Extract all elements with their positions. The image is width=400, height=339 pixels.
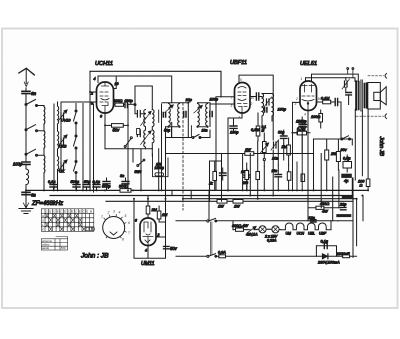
capacitor 100p on down-lead <box>22 162 30 169</box>
wire vertical x93.5 <box>93 104 95 192</box>
resistor 0.7M <box>292 131 310 135</box>
svg-text:42V,1A: 42V,1A <box>246 233 258 237</box>
wire secondary rails <box>57 102 59 190</box>
svg-text:C: C <box>53 209 55 213</box>
trimmer capacitor osc1 <box>137 111 151 126</box>
capacitor 0,1u bus left <box>50 185 57 191</box>
switch osc <box>124 137 132 148</box>
tap arrow dropper <box>247 227 257 234</box>
padder capacitor 1300 <box>155 173 164 176</box>
svg-text:2: 2 <box>157 233 160 237</box>
capacitor 22p left <box>311 220 317 222</box>
svg-text:A: A <box>42 214 44 218</box>
lamp 2 <box>269 226 281 233</box>
svg-text:UK: UK <box>59 170 65 174</box>
tube UM11 internals <box>143 222 153 246</box>
svg-text:0,3M: 0,3M <box>251 128 260 132</box>
node dots left <box>25 91 91 191</box>
resistor 100R cathode UEL <box>319 110 323 128</box>
tube UCH11 envelope <box>97 82 114 113</box>
svg-text:7: 7 <box>128 231 130 235</box>
detector trimmer <box>271 140 279 150</box>
volume potentiometer <box>260 133 269 158</box>
svg-text:5: 5 <box>125 214 127 218</box>
svg-text:1M: 1M <box>162 213 168 217</box>
svg-text:100Ω: 100Ω <box>114 99 123 103</box>
resistor 1M UM <box>157 206 165 222</box>
svg-text:2M: 2M <box>151 208 158 212</box>
IF1 capacitor d <box>210 112 212 117</box>
svg-text:C: C <box>68 209 70 213</box>
svg-text:UBF: UBF <box>319 231 327 235</box>
capacitor tone <box>346 93 352 105</box>
svg-text:100p: 100p <box>13 162 23 167</box>
svg-text:4: 4 <box>94 77 96 81</box>
diode load box <box>210 161 222 201</box>
svg-text:0,8A: 0,8A <box>218 251 226 255</box>
svg-text:UV10: UV10 <box>61 119 71 123</box>
svg-text:0,22A: 0,22A <box>267 238 277 242</box>
tube UCH11 internals <box>100 82 109 113</box>
oscillator coil L8b <box>152 130 154 149</box>
svg-text:100p: 100p <box>125 99 133 103</box>
small info table <box>41 237 67 251</box>
capacitor 100p top right <box>299 117 306 131</box>
svg-text:0,1µ: 0,1µ <box>48 180 56 184</box>
padder capacitor 500p <box>103 178 110 190</box>
svg-text:10p: 10p <box>186 98 192 102</box>
node dots x128 <box>104 124 129 126</box>
resistor 2M det <box>287 138 291 165</box>
IF1 transformer coil a <box>169 104 171 127</box>
svg-text:3: 3 <box>113 210 115 214</box>
tube UCH11 pin leads <box>83 92 97 102</box>
svg-text:6: 6 <box>135 219 137 223</box>
tube UBF11 envelope <box>235 83 251 114</box>
svg-text:E: E <box>86 209 88 213</box>
wire IF2 ends <box>262 94 272 126</box>
wire inner screen bus H2 <box>98 76 172 103</box>
svg-text:5W6: 5W6 <box>135 170 142 174</box>
trimmer capacitor band3 <box>58 160 67 171</box>
capacitor pair bottom det <box>275 165 282 190</box>
svg-text:1: 1 <box>101 215 103 219</box>
trimmer capacitor UV10 <box>58 110 67 121</box>
resistor after diode <box>337 255 357 258</box>
socket pin numbers <box>101 210 130 242</box>
IF1 capacitor a <box>163 113 165 118</box>
svg-text:22p: 22p <box>339 203 346 207</box>
wire grid line <box>61 101 83 103</box>
node dots extra <box>53 189 370 202</box>
svg-text:100p: 100p <box>210 98 218 102</box>
electrolytic 4u <box>342 174 352 177</box>
wire vertical x54 <box>53 104 55 190</box>
inductor RF choke on down-lead <box>26 169 29 200</box>
main bus B1 <box>26 189 368 191</box>
socket diagram circle <box>103 215 127 239</box>
svg-text:3n: 3n <box>120 174 124 178</box>
resistor 2W6 osc <box>137 129 140 135</box>
svg-text:3: 3 <box>231 104 233 108</box>
wire UEL51 grid left <box>293 101 301 103</box>
svg-text:300Ω,4W: 300Ω,4W <box>232 224 248 228</box>
svg-text:UEL: UEL <box>308 231 315 235</box>
resistor 300R 4W dropper <box>233 228 247 231</box>
IF2 trimmer <box>264 97 272 107</box>
svg-text:1W: 1W <box>234 205 240 209</box>
wire vertical x128 <box>127 104 129 190</box>
antenna <box>19 68 35 86</box>
IF1 capacitor b <box>184 112 186 118</box>
svg-text:B: B <box>90 209 92 213</box>
resistor v det a <box>213 162 217 190</box>
wire mains riser x209 <box>208 190 210 219</box>
main bus B4 <box>106 200 353 202</box>
wire IF1 inner vertical <box>187 103 189 138</box>
svg-text:UK8: UK8 <box>59 145 67 149</box>
svg-text:Ω: Ω <box>360 184 363 188</box>
svg-text:100: 100 <box>243 181 249 185</box>
node dots IF1 <box>167 102 208 128</box>
wire osc inner <box>158 110 160 122</box>
svg-text:1W: 1W <box>218 205 224 209</box>
svg-text:500: 500 <box>61 246 66 250</box>
wire IF1 bottoms <box>166 125 208 128</box>
svg-text:E: E <box>49 209 51 213</box>
wire IF1 left drop <box>166 127 193 154</box>
svg-text:U: U <box>42 219 44 223</box>
wire coil returns <box>43 125 45 191</box>
svg-text:10n: 10n <box>272 169 278 173</box>
svg-text:1k: 1k <box>209 182 213 186</box>
IF1 transformer coil c <box>198 104 200 127</box>
svg-text:John : JB: John : JB <box>80 253 109 260</box>
resistor 2M UM grid <box>146 199 150 218</box>
wire vertical x90 <box>89 71 91 190</box>
svg-text:UCH11: UCH11 <box>95 61 113 67</box>
antenna coil L1 <box>43 106 46 125</box>
IF1 trimmer arrow a <box>165 105 173 113</box>
IF2 transformer coil a <box>262 94 264 117</box>
svg-text:E: E <box>72 209 74 213</box>
switch top filter <box>341 136 351 140</box>
capacitor 50p <box>281 130 288 144</box>
wire AVC vertical x161.5 <box>161 104 163 190</box>
resistor 0,1M grid leak <box>317 100 335 104</box>
rectifier loop <box>316 246 336 256</box>
capacitor det b <box>220 168 227 180</box>
antenna coil L3 <box>43 155 46 173</box>
svg-text:500p: 500p <box>102 185 110 189</box>
wire UCH11 anode lead up <box>114 76 117 89</box>
wire detector drops <box>243 131 308 199</box>
wire vertical x83 <box>82 104 84 191</box>
wire vertical x61 <box>60 102 62 172</box>
resistor 50v cathode <box>105 124 128 128</box>
wire right verticals <box>355 109 368 180</box>
band switch 1 <box>25 100 38 107</box>
IF1 transformer coil d <box>206 104 208 127</box>
small table text <box>42 239 66 250</box>
wire contact rail <box>75 104 77 191</box>
black bar electrolytic 1 <box>342 196 353 199</box>
resistor under UEL <box>298 131 307 135</box>
trimmer capacitor band2 <box>58 135 67 146</box>
svg-text:6: 6 <box>100 115 102 119</box>
ground <box>19 195 33 214</box>
svg-text:UBF11: UBF11 <box>230 60 247 66</box>
resistor 460R 4W <box>308 206 341 209</box>
speaker <box>368 83 386 110</box>
capacitor UEL grid <box>335 99 341 140</box>
antenna coil L2 <box>43 131 46 149</box>
heater chain bumps <box>281 221 331 230</box>
capacitor 22p right <box>341 207 347 209</box>
output transformer core <box>356 80 366 111</box>
svg-text:200p: 200p <box>297 120 306 124</box>
tube UBF11 internals <box>238 87 248 114</box>
svg-text:UEL51: UEL51 <box>300 61 317 67</box>
svg-text:500µ: 500µ <box>71 180 80 184</box>
svg-text:100p: 100p <box>230 131 238 135</box>
wire UEL51 top leads <box>306 74 359 81</box>
main bus B2 <box>50 195 353 197</box>
svg-text:M: M <box>262 129 265 133</box>
switch IF mute <box>192 130 210 139</box>
resistor 1W a <box>217 200 227 204</box>
resistor v det d <box>256 172 260 180</box>
capacitor 500u bus <box>73 185 80 191</box>
trimmer capacitor osc2 <box>137 130 151 145</box>
svg-text:ZF=468kHz: ZF=468kHz <box>31 201 63 207</box>
svg-text:4W: 4W <box>322 210 328 214</box>
resistor 100R screen <box>114 103 125 106</box>
resistor 1W b <box>233 200 243 204</box>
wire verticals osc to bus <box>133 122 172 190</box>
IF2 capacitor mid <box>265 108 267 113</box>
capacitor 0,1u rectifier <box>324 243 327 248</box>
secondary coil L4 <box>58 106 59 124</box>
secondary coil L5 <box>58 131 59 149</box>
wire B+ line right part <box>254 153 314 155</box>
wire UBF11 left leads <box>210 97 235 191</box>
capacitor 100p det <box>230 118 237 133</box>
wire misc verticals mid <box>148 190 191 206</box>
svg-text:2: 2 <box>90 92 93 96</box>
svg-text:E: E <box>57 209 59 213</box>
secondary coil L6 <box>58 156 59 170</box>
wire UEL51 cathode <box>307 111 309 191</box>
resistor 500R bus <box>120 189 131 193</box>
wire UBF11 cathode <box>228 113 242 190</box>
table header letters <box>42 209 92 231</box>
svg-text:C: C <box>46 209 48 213</box>
capacitor 0,5u filter <box>343 155 352 172</box>
switch table circles <box>86 227 95 230</box>
IF2 transformer coil b <box>272 94 274 117</box>
filter box <box>314 139 353 195</box>
svg-text:500Ω: 500Ω <box>119 185 128 189</box>
mains switch DPST <box>176 218 217 257</box>
tube UEL51 internals <box>302 85 314 111</box>
wire osc bottom H <box>105 149 152 162</box>
band switch 3 <box>25 149 38 156</box>
UM11 box wiring <box>134 137 166 258</box>
svg-text:160p: 160p <box>278 108 286 112</box>
resistor filter b <box>336 139 340 170</box>
padder capacitor 2 <box>122 178 129 190</box>
svg-text:3: 3 <box>91 102 93 106</box>
svg-text:John JB: John JB <box>378 136 384 157</box>
capacitor 6n to ground <box>22 192 30 194</box>
tube UM11 envelope <box>140 218 156 246</box>
switch volume <box>263 158 265 166</box>
switch table grid <box>41 209 94 232</box>
svg-text:1: 1 <box>301 77 303 81</box>
junction dots buses <box>89 189 363 199</box>
svg-text:2: 2 <box>250 102 253 106</box>
svg-text:8: 8 <box>122 238 124 242</box>
svg-text:6n: 6n <box>31 91 37 96</box>
pin digits UEL51 <box>295 77 322 117</box>
svg-text:10n: 10n <box>202 129 208 133</box>
speaker ext terminal top <box>368 74 387 79</box>
wire mains top to lamps <box>217 221 354 230</box>
speaker ext terminal bottom <box>356 114 387 119</box>
wire antenna down-lead <box>25 96 27 161</box>
resistor 1,2k filter <box>325 139 329 190</box>
svg-text:E: E <box>64 209 66 213</box>
wire switch to coils <box>37 106 45 156</box>
svg-text:6: 6 <box>128 221 130 225</box>
svg-text:E: E <box>79 209 81 213</box>
svg-text:50µ: 50µ <box>164 129 170 133</box>
wire det extra verticals <box>293 102 303 190</box>
svg-text:C: C <box>75 209 77 213</box>
wire IF1 drops <box>172 126 192 138</box>
svg-text:50µ: 50µ <box>84 180 91 184</box>
main bus B3 <box>183 198 357 200</box>
svg-text:UCH: UCH <box>297 231 305 235</box>
capacitor 50v UM <box>164 246 170 248</box>
resistor 1W on B+ line <box>166 152 254 156</box>
svg-text:0,1µ: 0,1µ <box>93 180 101 184</box>
svg-text:5: 5 <box>240 78 242 82</box>
tube UEL51 envelope <box>300 81 317 111</box>
wire UBF11 top anode loop <box>239 75 273 140</box>
capacitor 50u bus <box>83 185 90 191</box>
capacitor UBF out <box>250 93 262 100</box>
svg-text:50v: 50v <box>170 246 178 251</box>
pin digits UBF11 <box>231 78 255 120</box>
wave switch contacts column <box>74 110 78 174</box>
switch osc 2 <box>137 159 145 166</box>
speaker plug stubs <box>347 68 354 78</box>
resistor v det c <box>245 163 249 190</box>
svg-text:UM11: UM11 <box>141 261 155 267</box>
svg-text:aarde: aarde <box>42 246 50 250</box>
svg-text:2: 2 <box>107 211 110 215</box>
svg-text:50v: 50v <box>113 128 121 133</box>
svg-text:4: 4 <box>145 249 147 253</box>
IF1 transformer coil b <box>178 104 180 127</box>
switch table X marks <box>46 214 86 231</box>
dashed gang line <box>182 103 184 210</box>
IF1 trimmer arrow c <box>194 106 202 114</box>
resistor v det f <box>301 174 305 182</box>
band switch 2 <box>25 125 38 132</box>
diode rectifier <box>316 254 336 259</box>
svg-text:C: C <box>83 209 85 213</box>
oscillator coil L7a <box>144 110 146 131</box>
svg-text:0,1M: 0,1M <box>321 97 330 101</box>
svg-text:6n: 6n <box>31 193 36 198</box>
svg-text:4: 4 <box>304 113 306 117</box>
wire osc anode junction <box>134 86 152 114</box>
padder box <box>153 154 169 177</box>
capacitor antenna series 6n <box>22 88 30 105</box>
black bar electrolytic 2 <box>336 214 351 217</box>
svg-text:0,5µ: 0,5µ <box>343 157 351 161</box>
capacitor 100p AGC <box>244 169 250 190</box>
svg-text:1W: 1W <box>245 148 251 152</box>
oscillator coil L7b <box>152 110 154 131</box>
wire UCH11 cathode down <box>104 113 106 149</box>
resistor UBF diode load <box>256 113 260 141</box>
svg-text:K: K <box>42 228 44 232</box>
capacitor 0,1u bus 2 <box>93 185 100 191</box>
tone trimmer <box>342 78 350 92</box>
svg-text:UM: UM <box>286 231 292 235</box>
svg-text:22p: 22p <box>308 216 315 220</box>
svg-text:230V,100mA: 230V,100mA <box>317 261 340 265</box>
svg-text:C: C <box>60 209 62 213</box>
wire IF1 tops <box>162 103 210 126</box>
resistor 100R right <box>366 179 370 190</box>
svg-text:100Ω: 100Ω <box>311 115 320 119</box>
oscillator coil L8a <box>144 130 146 149</box>
capacitor 200p <box>300 125 307 127</box>
wire top bus H1 <box>90 71 221 97</box>
lamp 1 <box>257 226 269 233</box>
svg-text:2: 2 <box>295 97 298 101</box>
fuse 0,8A <box>217 255 317 258</box>
resistor v det e <box>287 172 291 181</box>
wire right area verticals <box>308 154 363 258</box>
svg-text:0,1µ: 0,1µ <box>321 239 329 243</box>
svg-text:4: 4 <box>119 211 121 215</box>
capacitor 100p screen <box>125 101 135 108</box>
